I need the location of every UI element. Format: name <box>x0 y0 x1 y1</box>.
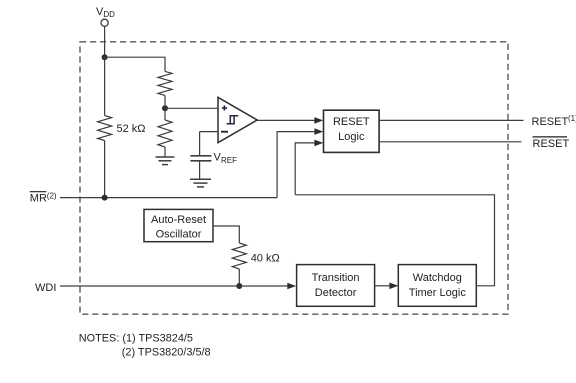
svg-text:MR: MR <box>30 193 47 205</box>
svg-text:40 kΩ: 40 kΩ <box>251 253 280 265</box>
svg-text:(2) TPS3820/3/5/8: (2) TPS3820/3/5/8 <box>122 346 211 358</box>
op-amp comparator U1 <box>218 97 257 142</box>
wire VREF to ground <box>199 161 201 179</box>
RESET Logic block <box>324 110 380 152</box>
svg-text:RESET: RESET <box>333 116 370 128</box>
wire node A to divider top <box>105 57 165 71</box>
svg-text:Timer Logic: Timer Logic <box>409 287 467 299</box>
minus input marker <box>221 131 228 133</box>
svg-text:Logic: Logic <box>338 131 365 143</box>
svg-text:Auto-Reset: Auto-Reset <box>151 214 206 226</box>
node A junction dot <box>102 54 108 60</box>
wire minus input down to VREF <box>199 132 201 156</box>
wire oscillator to 40k resistor <box>213 226 239 243</box>
wire node B to comparator + input <box>165 107 218 109</box>
node VDD label <box>96 6 115 19</box>
svg-text:NOTES: (1) TPS3824/5: NOTES: (1) TPS3824/5 <box>79 333 193 345</box>
svg-text:(1): (1) <box>568 114 576 123</box>
wire VDD pin down to node A <box>104 26 106 57</box>
wire watchdog feedback up to RESET Logic with arrowhead <box>295 140 323 195</box>
svg-text:52 kΩ: 52 kΩ <box>117 123 146 135</box>
hysteresis symbol <box>227 116 239 124</box>
node RESET(1) output label <box>532 114 576 128</box>
VDD pin terminal circle <box>101 19 108 26</box>
wire 52k resistor down to MR line <box>104 141 106 198</box>
wire WDI input to Transition Detector with arrowhead <box>60 283 296 290</box>
label VREF <box>214 152 238 166</box>
wire divider upper to node B <box>164 95 166 108</box>
node MR label <box>30 192 57 205</box>
wire MR up to RESET Logic with arrowhead <box>277 128 323 197</box>
wire Transition Detector to Watchdog Timer Logic with arrowhead <box>375 283 399 290</box>
wire 40k resistor down to WDI line <box>238 269 240 286</box>
wire RESET output <box>379 119 523 121</box>
wire comparator minus input <box>200 131 218 133</box>
node B junction dot <box>162 105 168 111</box>
node RESET-bar output label <box>533 137 570 150</box>
wire comparator output to RESET Logic with arrowhead <box>257 117 323 124</box>
ground under divider <box>156 157 175 165</box>
Transition Detector block <box>297 265 375 307</box>
dashed device boundary box <box>80 42 508 314</box>
ground under VREF <box>190 179 211 187</box>
resistor divider upper <box>158 71 172 95</box>
Auto-Reset Oscillator block <box>144 209 213 241</box>
svg-text:Detector: Detector <box>315 287 357 299</box>
svg-text:Oscillator: Oscillator <box>156 229 202 241</box>
wire node A down to 52k resistor <box>104 57 106 115</box>
resistor 52 kOhm <box>98 116 112 141</box>
Watchdog Timer Logic block <box>398 265 476 307</box>
resistor divider lower <box>158 108 172 156</box>
resistor 40 kOhm <box>232 243 246 269</box>
svg-text:Watchdog: Watchdog <box>413 272 462 284</box>
node on MR line junction dot <box>102 195 108 201</box>
wire RESET-bar output <box>379 141 521 143</box>
svg-text:DD: DD <box>103 10 115 19</box>
svg-text:RESET: RESET <box>532 116 569 128</box>
node WDI junction dot <box>236 283 242 289</box>
svg-text:RESET: RESET <box>533 138 570 150</box>
svg-text:REF: REF <box>221 156 237 165</box>
plus input marker <box>222 105 227 110</box>
svg-text:(2): (2) <box>47 192 57 201</box>
svg-text:Transition: Transition <box>312 272 360 284</box>
capacitor VREF <box>190 156 211 161</box>
svg-text:WDI: WDI <box>35 282 56 294</box>
wire watchdog output feedback loop <box>295 195 494 286</box>
wire MR input line <box>60 197 277 199</box>
